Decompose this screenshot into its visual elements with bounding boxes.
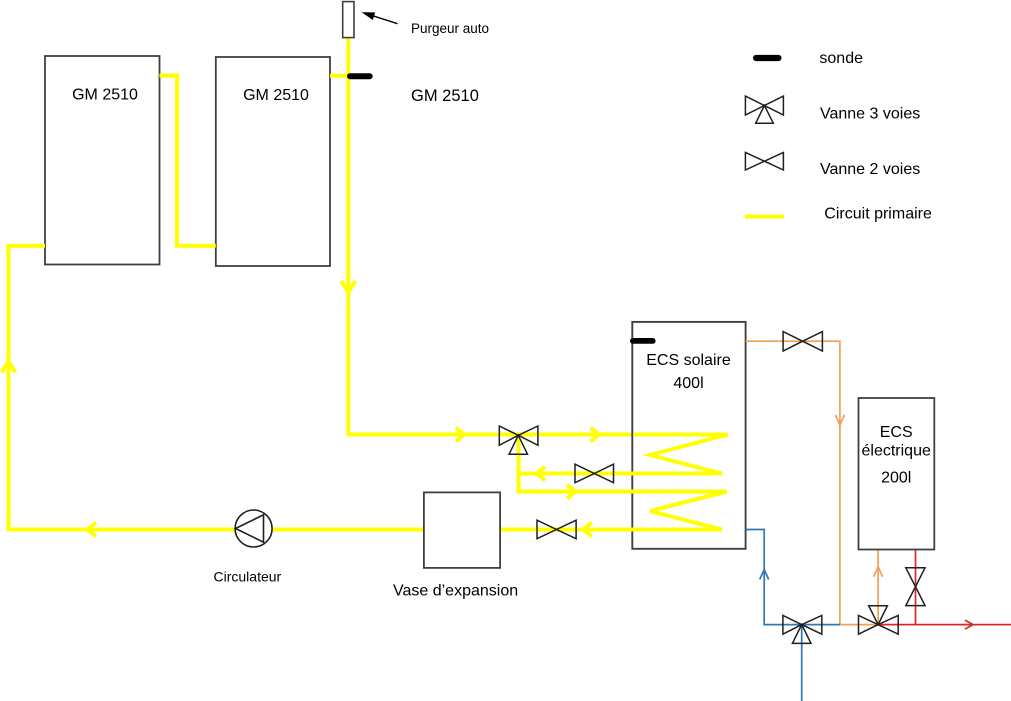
wire yellow: vase to circulator to left main return (9, 246, 425, 530)
svg-text:Vase d’expansion: Vase d’expansion (393, 583, 518, 600)
svg-text:Vanne 2 voies: Vanne 2 voies (820, 161, 920, 178)
arrow red right (965, 620, 973, 629)
wire yellow: lower coil inside tank (500, 492, 727, 530)
svg-text:Purgeur auto: Purgeur auto (411, 21, 489, 36)
arrow yellow up on left return riser (2, 362, 16, 373)
3-way valve V6 (mixing, top branch) (859, 606, 899, 635)
arrow blue up toward tank (760, 570, 769, 580)
svg-text:Circulateur: Circulateur (214, 569, 282, 585)
wire orange: solar tank top to ECS electrique circuit (746, 341, 879, 624)
purgeur auto (air vent) body (343, 2, 354, 38)
arrow yellow left on tank bottom outlet (584, 523, 592, 537)
legend circuit primaire line (745, 215, 784, 219)
legend 2-way valve symbol (745, 152, 783, 170)
svg-text:ECS: ECS (880, 424, 913, 441)
svg-text:Circuit primaire: Circuit primaire (824, 206, 932, 223)
wire yellow: boiler2 outlet to main riser (330, 74, 348, 78)
2-way valve V7 (vertical, red line) (906, 568, 925, 606)
svg-text:électrique: électrique (862, 443, 931, 460)
svg-text:400l: 400l (673, 375, 703, 392)
circulator pump (235, 510, 272, 547)
wire blue: solar tank bottom to cold water tee (746, 530, 840, 625)
wire yellow: main riser from purgeur down then to solar tank coil inlet (348, 38, 728, 435)
purgeur auto callout arrow (373, 16, 398, 24)
vase d'expansion box (424, 492, 500, 568)
wire yellow: upper coil inside tank (re-draw over tank) (519, 435, 728, 474)
wire red: hot water outlet to right edge (878, 624, 1011, 626)
solar tank ECS solaire box (632, 322, 745, 549)
svg-text:GM 2510: GM 2510 (243, 87, 309, 104)
arrow yellow left on bottom return (88, 523, 96, 537)
wire yellow: drop from 3-way valve to lower coil feed (519, 435, 727, 491)
wire blue: cold water supply from bottom (801, 625, 803, 701)
svg-text:GM 2510: GM 2510 (72, 87, 138, 104)
arrow yellow right on lower coil feed (567, 485, 575, 499)
sonde on solar tank (630, 338, 656, 344)
wire red: ECS electrique bottom through valve (915, 550, 917, 625)
boiler GM 2510 #1 box (45, 56, 160, 265)
svg-text:Vanne 3 voies: Vanne 3 voies (820, 106, 920, 123)
svg-text:200l: 200l (881, 470, 911, 487)
boiler GM 2510 #2 box (216, 57, 330, 266)
arrow yellow down on riser (341, 281, 355, 292)
2-way valve V3 (tank bottom outlet) (537, 520, 576, 539)
wire yellow: boiler1 outlet to boiler2 inlet (160, 76, 216, 246)
sonde on collector pipe (347, 73, 373, 79)
legend sonde symbol (753, 55, 782, 61)
legend 3-way valve symbol (745, 96, 783, 123)
svg-text:GM 2510: GM 2510 (411, 87, 479, 105)
ECS electrique box (859, 398, 935, 550)
arrow yellow right before 3-way valve (456, 428, 464, 442)
svg-text:sonde: sonde (819, 50, 863, 67)
arrow yellow right after 3-way valve (591, 428, 599, 442)
2-way valve V4 (orange, tank top) (783, 332, 822, 351)
2-way valve V2 (upper coil return) (575, 464, 614, 483)
svg-text:ECS solaire: ECS solaire (646, 352, 731, 369)
wire orange: riser to ECS electrique bottom (877, 550, 879, 625)
arrow yellow left on upper coil return (537, 467, 545, 481)
3-way valve V5 (blue, cold water) (783, 615, 822, 643)
3-way valve V1 (yellow circuit) (499, 426, 538, 454)
arrow orange down on drop (835, 415, 844, 425)
arrow orange up to ECS electrique (874, 567, 883, 577)
